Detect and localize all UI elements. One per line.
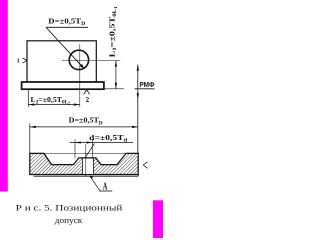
hole circle (69, 50, 88, 69)
datum 1 label (17, 58, 27, 65)
svg-text:1: 1 (17, 59, 20, 65)
left extension line (29, 124, 31, 154)
top edge visible across recess (44, 152, 126, 154)
vertical centerline (79, 44, 81, 107)
leader arrowhead (80, 64, 85, 69)
section cut (hatched) (30, 153, 138, 174)
dimension d line (70, 139, 134, 158)
label D=±0,5TD (bottom view) (69, 116, 103, 127)
hole in section (82, 159, 93, 174)
RMF datum line (135, 65, 155, 154)
leader from D label to hole (46, 28, 84, 69)
svg-text:А: А (103, 182, 108, 193)
svg-text:d=±0,5Td: d=±0,5Td (89, 133, 127, 144)
centerline bottom view (85, 144, 87, 176)
underline of D label (46, 26, 88, 28)
dimension L1 (vertical, right) (104, 61, 124, 89)
bottom visible edge (34, 175, 139, 177)
dimension L2 (horizontal, bottom) (28, 90, 80, 107)
leader from d label into hole (78, 144, 94, 169)
right edge lower segment (137, 175, 139, 177)
magenta block bottom right (153, 200, 163, 238)
svg-text:2: 2 (86, 96, 90, 104)
svg-text:допуск: допуск (55, 216, 83, 225)
label d=±0,5Td (89, 133, 127, 144)
body rectangle (27, 41, 96, 82)
dimension D line (30, 124, 138, 154)
label D=±0,5TD (48, 17, 85, 28)
bottom extension line (104, 88, 124, 90)
label A with leader (90, 176, 113, 193)
datum 2 label (84, 90, 90, 105)
svg-text:Р и с. 5. Позиционный: Р и с. 5. Позиционный (16, 203, 124, 212)
label L1 rotated (108, 6, 119, 57)
surface mark at right face (143, 162, 147, 169)
horizontal centerline (62, 60, 120, 62)
magenta strip left (0, 0, 8, 192)
label L2 (31, 95, 71, 106)
svg-text:РМФ: РМФ (139, 82, 154, 89)
base plate (22, 82, 104, 89)
